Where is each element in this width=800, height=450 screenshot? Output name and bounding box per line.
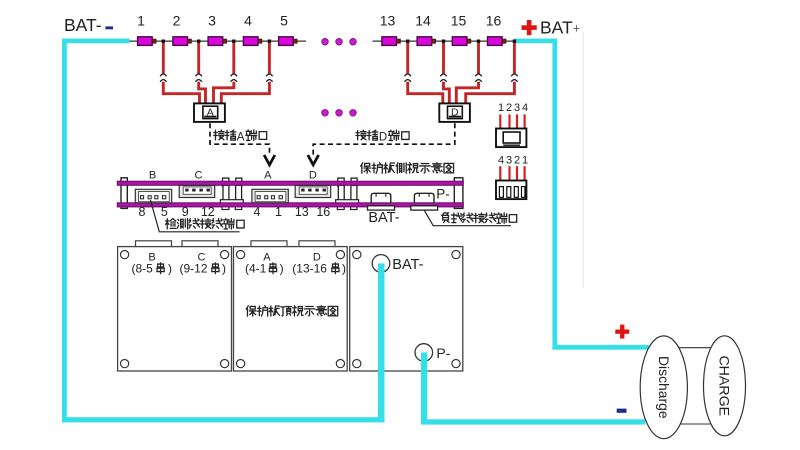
- leader line detection port: [151, 200, 240, 232]
- svg-text:4: 4: [498, 155, 504, 167]
- label fu-zai-xian jie-xian duan-kou: [442, 213, 517, 223]
- svg-text:(4-1: (4-1: [245, 262, 267, 276]
- connector plug D: [439, 103, 470, 122]
- svg-text:3: 3: [514, 102, 520, 114]
- svg-text:(9-12: (9-12: [180, 262, 208, 276]
- svg-text:(8-5: (8-5: [132, 262, 154, 276]
- svg-text:2: 2: [506, 102, 512, 114]
- svg-text:P-: P-: [436, 345, 450, 361]
- ellipsis dots row 1: [322, 39, 356, 45]
- svg-text:B: B: [149, 169, 156, 181]
- battery cell 1: [138, 37, 156, 46]
- side view: pad BAT- body: [371, 193, 391, 203]
- svg-text:BAT-: BAT-: [392, 257, 423, 273]
- svg-text:4: 4: [522, 102, 528, 114]
- svg-text:5: 5: [280, 13, 288, 29]
- side view: left end post: [121, 178, 127, 209]
- wire break marks group A: [160, 74, 166, 82]
- side view: connector D: [295, 185, 331, 197]
- top view: panel 1: [118, 247, 232, 371]
- svg-text:12: 12: [201, 205, 215, 219]
- plus symbol red: [522, 20, 537, 35]
- side view: standoff pair 1 caps: [220, 178, 243, 209]
- svg-text:2: 2: [514, 155, 520, 167]
- svg-text:1: 1: [522, 155, 528, 167]
- ellipse Discharge: [640, 336, 687, 439]
- label protection board side view (bao hu ban ce shi shi yi tu): [361, 163, 454, 174]
- labels 4 3 2 1: [498, 155, 528, 167]
- plus symbol red near discharge: [615, 325, 629, 339]
- ellipsis dots row 2: [322, 110, 356, 116]
- svg-text:1: 1: [498, 102, 504, 114]
- faint gray vertical line: [583, 32, 584, 288]
- minus symbol navy near discharge: [617, 409, 627, 413]
- svg-text:16: 16: [486, 13, 502, 29]
- side view: board top bar: [117, 181, 463, 185]
- battery cell 5: [279, 37, 297, 46]
- svg-text:A: A: [237, 131, 245, 143]
- wire BAT+ cyan right: [514, 39, 649, 350]
- top view: connector tab C: [182, 241, 218, 248]
- svg-text:2: 2: [173, 13, 181, 29]
- svg-text:16: 16: [316, 205, 330, 219]
- dashed leader for plug A: [210, 123, 270, 154]
- svg-text:BAT+: BAT+: [540, 18, 580, 38]
- svg-text:9: 9: [182, 205, 189, 219]
- battery cell 13: [382, 37, 400, 46]
- wire break marks group D: [405, 74, 411, 82]
- top view: connector tab A: [251, 241, 287, 248]
- side view: pad BAT- flange: [368, 206, 395, 210]
- junction dots on series line: [162, 40, 517, 43]
- svg-text:): ): [342, 262, 346, 276]
- pins red bottom: [499, 166, 526, 180]
- svg-text:4: 4: [254, 205, 261, 219]
- connector plug side view: [496, 129, 526, 148]
- wire P- terminal down then right (cyan): [421, 353, 427, 425]
- pins red top: [499, 114, 526, 128]
- label jie-cha D duan-kou: [356, 130, 409, 143]
- sense wires group D (red): [408, 42, 515, 106]
- side view: pad P- flange: [411, 206, 438, 210]
- arrowhead D: [308, 155, 319, 165]
- terminal P- circle: [415, 344, 433, 362]
- top view: screw holes: [121, 251, 461, 368]
- svg-text:15: 15: [451, 13, 467, 29]
- svg-text:D: D: [309, 169, 317, 181]
- minus symbol navy: [105, 26, 113, 29]
- arrowhead A: [264, 155, 275, 165]
- top view: connector tab D: [299, 241, 335, 248]
- svg-text:CHARGE: CHARGE: [716, 355, 732, 416]
- top view labels B C A D: [148, 252, 321, 264]
- svg-text:): ): [280, 262, 284, 276]
- svg-text:1: 1: [275, 205, 282, 219]
- svg-text:5: 5: [161, 205, 168, 219]
- svg-text:4: 4: [244, 13, 252, 29]
- svg-text:): ): [168, 262, 172, 276]
- svg-text:13: 13: [380, 13, 396, 29]
- side view: pad P- body: [414, 193, 434, 203]
- top view: panel 2: [234, 247, 348, 371]
- connector socket side view: [496, 181, 526, 200]
- connector pinout detail: labels 1 2 3 4: [498, 102, 528, 114]
- label protection board top view (bao hu ban ding shi shi yi tu): [246, 306, 338, 317]
- top view: connector tab B: [136, 241, 172, 248]
- svg-text:13: 13: [295, 205, 309, 219]
- side view: right end post: [454, 178, 463, 209]
- side view pin number labels: [139, 205, 331, 219]
- sense wires group A (red): [163, 42, 269, 106]
- svg-text:C: C: [195, 169, 203, 181]
- wire series link line: [130, 40, 516, 42]
- svg-text:BAT-: BAT-: [64, 15, 102, 35]
- side view: connector B: [135, 189, 171, 203]
- battery cell 2: [173, 37, 191, 46]
- svg-text:A: A: [207, 107, 214, 119]
- wire BAT- terminal down (cyan): [378, 263, 385, 422]
- terminal BAT- circle: [372, 255, 390, 273]
- battery cell 16: [488, 37, 506, 46]
- svg-text:): ): [222, 262, 226, 276]
- leader line load port: [424, 210, 511, 225]
- side view: connector C: [179, 185, 215, 197]
- label jie-cha A duan-kou: [214, 130, 267, 143]
- cell number labels: [137, 13, 501, 29]
- side view connector letter labels: [149, 169, 317, 181]
- side view: connector A: [252, 189, 288, 203]
- svg-text:3: 3: [506, 155, 512, 167]
- ellipse CHARGE: [704, 336, 746, 436]
- side view: board bottom bar: [117, 203, 463, 207]
- battery cell 15: [452, 37, 470, 46]
- svg-text:BAT-: BAT-: [368, 210, 399, 226]
- dashed leader for plug D: [313, 123, 455, 154]
- wire BAT- cyan left loop: [62, 39, 384, 423]
- svg-text:1: 1: [137, 13, 145, 29]
- svg-text:14: 14: [415, 13, 431, 29]
- svg-text:Discharge: Discharge: [656, 356, 672, 419]
- svg-text:(13-16: (13-16: [292, 262, 327, 276]
- connector plug A: [194, 103, 225, 122]
- link lines between ellipses: [664, 348, 724, 424]
- battery cell 4: [243, 37, 261, 46]
- top view: panel 3: [350, 247, 463, 371]
- svg-text:D: D: [451, 107, 459, 119]
- svg-text:8: 8: [139, 205, 146, 219]
- svg-text:P-: P-: [436, 187, 450, 202]
- svg-text:D: D: [379, 131, 387, 143]
- svg-text:3: 3: [208, 13, 216, 29]
- battery cell 3: [208, 37, 226, 46]
- svg-text:A: A: [264, 169, 272, 181]
- label jian-ce-xian jie-xian duan-kou: [166, 219, 245, 230]
- side view: standoff pair 2: [336, 178, 359, 209]
- battery cell 14: [417, 37, 435, 46]
